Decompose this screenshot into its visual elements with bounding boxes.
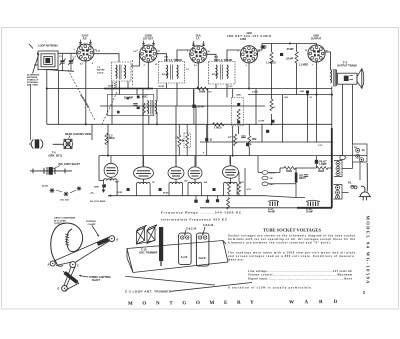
battery plug bracket right — [353, 144, 368, 162]
resistor R plate V5 — [296, 47, 298, 49]
pointer clamp bar — [97, 238, 109, 246]
wires power — [258, 156, 332, 198]
svg-text:COILS: COILS — [97, 72, 104, 74]
dial drum dark bar — [159, 227, 163, 261]
T-4 2nd IF transformer — [209, 62, 236, 85]
tube V2 1st det — [140, 45, 157, 62]
svg-text:The readings were taken with a: The readings were taken with a 1000 ohm-… — [228, 250, 356, 254]
svg-text:AC-DC: AC-DC — [270, 172, 277, 175]
wire V2 left — [131, 54, 140, 66]
tube V1 12A7 — [77, 44, 94, 61]
T-3 1st IF transformer — [159, 62, 185, 84]
cap near rect — [304, 175, 308, 177]
chassis slab — [127, 241, 228, 273]
svg-text:200M: 200M — [199, 90, 205, 93]
detector load dashed box — [232, 97, 244, 126]
svg-text:OUTPUT TRANS: OUTPUT TRANS — [337, 65, 357, 68]
svg-text:CLAMP: CLAMP — [88, 223, 96, 226]
svg-text:20MF: 20MF — [94, 187, 100, 189]
vertical x177 T3 — [176, 83, 178, 106]
svg-text:Frequency Range..........540-1: Frequency Range..........540-1600 KC — [161, 211, 242, 215]
bus y=88.5 — [47, 88, 332, 90]
speaker plug P2 — [29, 140, 43, 149]
pulley B — [109, 236, 115, 242]
svg-text:REAR CHASSIS VIEW: REAR CHASSIS VIEW — [65, 133, 92, 136]
svg-text:B+: B+ — [362, 149, 366, 152]
svg-text:I.F.: I.F. — [196, 37, 200, 40]
svg-text:MODEL 94 WG-1059A: MODEL 94 WG-1059A — [365, 216, 370, 285]
bus y=124.3 — [47, 123, 332, 125]
vertical x282.5 — [282, 95, 284, 142]
svg-text:(SPK. SKT.): (SPK. SKT.) — [49, 154, 63, 157]
vertical x58.5 loop down — [58, 71, 60, 124]
heater bottom wire — [108, 195, 265, 197]
tube V4 2nd det avc 1st audio — [240, 46, 257, 63]
svg-text:455 KC: 455 KC — [212, 73, 219, 76]
svg-text:POINTER: POINTER — [86, 221, 96, 223]
chassis plug circles left — [334, 161, 342, 177]
svg-text:A: A — [48, 264, 50, 267]
vertical V2 down — [147, 63, 149, 89]
cord to pulleys — [54, 237, 110, 291]
svg-text:Intermediate Frequency 455 KC: Intermediate Frequency 455 KC — [161, 217, 228, 221]
electrolytic C-17 — [270, 202, 278, 207]
svg-text:B: B — [117, 239, 119, 242]
svg-text:Signal input..................: Signal input............................… — [248, 276, 353, 280]
svg-text:A variation of ±10% is usually: A variation of ±10% is usually permissib… — [228, 285, 312, 289]
svg-text:TUBE SOCKET VOLTAGES: TUBE SOCKET VOLTAGES — [263, 227, 321, 232]
alignment mark 2 — [64, 192, 69, 197]
dial cord loop — [51, 223, 83, 266]
speaker SP1 — [338, 73, 358, 84]
svg-text:VOL CONT SHAFT: VOL CONT SHAFT — [58, 163, 80, 166]
heater drop wires — [104, 177, 238, 195]
alternate antenna symbol note — [27, 74, 40, 87]
plug arrow symbol — [340, 156, 346, 160]
gang condenser dashed link — [68, 60, 133, 124]
svg-text:A+: A+ — [354, 146, 358, 149]
vertical x216 T4 — [215, 84, 217, 89]
vertical x307.5 — [307, 95, 309, 142]
svg-text:40 MF: 40 MF — [268, 210, 276, 213]
svg-text:filaments are between the sock: filaments are between the socket termina… — [228, 241, 331, 245]
svg-text:ALIGN: ALIGN — [42, 185, 49, 188]
vertical x176 heater — [175, 106, 177, 166]
heater resistor bumps — [104, 179, 118, 181]
svg-text:OSC: OSC — [142, 96, 148, 99]
chassis bottom arrow line — [125, 276, 215, 285]
stub to resistor R12 — [271, 44, 273, 53]
cap C-12 — [205, 138, 208, 141]
svg-text:4.7Ω: 4.7Ω — [247, 188, 252, 191]
pulley D — [62, 285, 68, 291]
pointer clamp label — [86, 221, 96, 226]
switch contacts AC-DC — [262, 171, 268, 175]
pilot light small — [351, 185, 354, 188]
vertical V5 down — [316, 62, 318, 142]
caps audio — [280, 53, 283, 56]
heater caps — [127, 188, 130, 191]
cap C-19 under E1 — [102, 184, 106, 187]
cap .05MF — [192, 105, 195, 108]
svg-text:OSC 1620: OSC 1620 — [60, 200, 69, 202]
arrow to loop — [33, 54, 40, 74]
svg-text:.05 MF: .05 MF — [197, 106, 205, 109]
svg-text:2 MEG: 2 MEG — [252, 91, 259, 93]
svg-text:WARD: WARD — [289, 300, 348, 306]
svg-text:4.7: 4.7 — [228, 136, 232, 139]
svg-text:ANT/RF: ANT/RF — [97, 69, 105, 72]
svg-text:20 MF: 20 MF — [306, 210, 314, 213]
lower plug circles — [334, 185, 343, 200]
alignment mark 1 — [49, 188, 54, 193]
selenium rectifier — [295, 173, 298, 183]
svg-text:OSC. TRIMMER: OSC. TRIMMER — [139, 252, 158, 255]
svg-text:.05 MF: .05 MF — [286, 48, 294, 51]
svg-text:1st IF: 1st IF — [181, 256, 188, 259]
vertical x232.7 detector box — [232, 89, 234, 98]
svg-text:BATT.: BATT. — [270, 183, 276, 186]
svg-text:P.L.: P.L. — [348, 182, 353, 185]
svg-text:ALL VOLT. READ: ALL VOLT. READ — [90, 200, 106, 203]
svg-text:C-8,C-13: C-8,C-13 — [203, 224, 214, 227]
svg-text:2ND I.F. TRANS: 2ND I.F. TRANS — [214, 59, 233, 62]
B+ bold vertical — [331, 128, 333, 208]
svg-text:Volume control................: Volume control..........................… — [248, 273, 353, 277]
svg-text:GANG CONDENSER: GANG CONDENSER — [54, 217, 76, 220]
resistor 10M — [248, 136, 251, 148]
svg-text:.05 MF: .05 MF — [158, 86, 165, 88]
resistor grid V5 — [295, 52, 298, 64]
svg-text:ANT. USED: ANT. USED — [27, 84, 38, 87]
vertical x271.5 — [271, 63, 273, 99]
speaker socket S1 — [53, 143, 64, 145]
heater labels — [115, 181, 244, 195]
resistor 360 ohm — [284, 167, 296, 170]
bus y=94.6 — [248, 94, 332, 96]
vertical x112 T-2 down — [111, 81, 113, 124]
wire T-3 to V3 — [177, 50, 190, 62]
bottom bus y=207.8 — [200, 207, 297, 209]
socket E3 — [168, 167, 184, 179]
vertical left corner — [46, 89, 48, 125]
svg-text:R.F.: R.F. — [83, 37, 88, 40]
resistor 200M between IFs — [197, 87, 209, 90]
osc coil T-7 — [148, 101, 149, 115]
IF trimmer card 1 — [179, 233, 192, 265]
svg-text:.01 MF: .01 MF — [258, 121, 265, 123]
vertical V3 down — [197, 63, 199, 89]
resistor heater right 1 — [228, 182, 231, 194]
svg-text:455 KC: 455 KC — [162, 73, 169, 76]
wire V4 to V5 top — [258, 44, 317, 51]
svg-text:IN CLOSED: IN CLOSED — [54, 220, 66, 222]
pulley A — [50, 261, 55, 266]
socket E4 — [188, 167, 202, 179]
vertical x256 — [255, 89, 257, 125]
AC plug P-1 — [359, 163, 371, 200]
tuning shaft — [62, 270, 80, 285]
vertical x85.8 V1 cathode — [85, 61, 87, 124]
vertical x128 — [127, 81, 129, 89]
resistor heater right 2 — [238, 182, 241, 194]
vertical x143 heater — [142, 89, 144, 167]
cap — [241, 136, 245, 138]
vertical x249.3 — [248, 124, 250, 135]
vertical x230 heater — [229, 156, 231, 165]
volume shaft assembly — [30, 167, 72, 175]
gang condenser label — [54, 217, 76, 226]
svg-text:40 MF: 40 MF — [163, 192, 169, 195]
vertical x196 heater — [195, 106, 197, 166]
svg-text:250M: 250M — [108, 86, 113, 88]
B- down arrow — [102, 190, 106, 193]
electrolytic C-18 — [308, 202, 318, 207]
resistor 2.2 meg — [105, 133, 108, 145]
svg-text:C-9,C-14: C-9,C-14 — [186, 228, 197, 231]
svg-text:C: C — [77, 265, 79, 268]
svg-text:OUTPUT: OUTPUT — [311, 37, 322, 40]
svg-text:12B6: 12B6 — [240, 38, 247, 41]
volume control R-8 — [184, 133, 191, 148]
svg-text:RECT.: RECT. — [299, 177, 307, 180]
svg-text:390Ω: 390Ω — [318, 170, 324, 173]
bus y=106 — [100, 105, 265, 107]
alignment mark 3 — [77, 186, 81, 190]
socket E1 — [104, 163, 118, 177]
vertical x119.5 — [119, 81, 121, 95]
bus y=142 — [200, 141, 332, 143]
wavy mark — [91, 192, 94, 195]
T-2 ant coils — [112, 62, 132, 81]
svg-text:SHAFT: SHAFT — [92, 279, 101, 282]
svg-text:30Ω: 30Ω — [204, 182, 208, 184]
svg-text:30Ω: 30Ω — [184, 181, 188, 183]
junction dots — [46, 42, 333, 156]
vertical V4 down — [248, 63, 250, 89]
cord spring hatching — [65, 234, 70, 245]
wire V1 to T-2 — [94, 54, 119, 62]
vertical x207.7 — [207, 89, 209, 143]
socket E5 — [223, 166, 239, 178]
resistor under wire — [227, 198, 230, 210]
resistor plate V4 — [270, 52, 273, 64]
bold segment bus — [104, 88, 153, 90]
svg-text:12 MF: 12 MF — [117, 192, 123, 194]
vertical x157 — [156, 89, 158, 102]
vertical x262 — [261, 124, 263, 142]
trimmer C-1 — [60, 54, 66, 72]
resistor 1 MEG on bus — [213, 123, 225, 126]
pulley C — [70, 262, 76, 268]
svg-text:ment are:: ment are: — [228, 257, 244, 261]
IF trimmer card 2 — [196, 233, 209, 266]
resistor under T-2 — [114, 82, 117, 89]
svg-text:50M: 50M — [300, 91, 304, 93]
pilot lamp block — [315, 160, 318, 164]
loop antenna L1 — [34, 51, 77, 89]
wire V2 to T-3 — [157, 54, 167, 62]
svg-text:Socket voltages are shown on t: Socket voltages are shown on the schemat… — [228, 234, 355, 238]
cap in osc box — [133, 104, 137, 106]
osc section box — [107, 95, 154, 116]
svg-text:C-2 LOOP ANT. TRIMMER: C-2 LOOP ANT. TRIMMER — [125, 290, 172, 294]
tube V5 output — [308, 45, 325, 62]
leader lines — [56, 190, 62, 192]
resistor 390 ohm — [316, 167, 328, 170]
wire T-4 to V4 — [227, 50, 241, 62]
wires right — [342, 162, 360, 193]
gang condenser 3d — [137, 225, 158, 244]
svg-text:1.1 MEG: 1.1 MEG — [299, 64, 309, 67]
vertical x193.5 — [193, 89, 195, 107]
svg-text:D: D — [58, 288, 60, 291]
svg-text:and screen voltages read on a: and screen voltages read on a 300 volt s… — [228, 254, 355, 258]
svg-text:2nd IF: 2nd IF — [199, 257, 207, 260]
svg-text:SW: SW — [270, 178, 273, 180]
resistor in osc box — [142, 103, 145, 115]
vertical x296.5 — [296, 63, 298, 95]
cap C-5 25MMF — [137, 96, 140, 99]
bus y=155.6 — [99, 155, 367, 157]
svg-text:terminals with set not operati: terminals with set not operating on AC. … — [228, 237, 356, 241]
svg-text:LOOP ANTENNA: LOOP ANTENNA — [38, 45, 58, 48]
svg-text:1 MEG: 1 MEG — [214, 126, 222, 129]
vertical x92 — [91, 124, 93, 140]
bypass caps under heater wire — [196, 196, 218, 200]
svg-text:MEG: MEG — [109, 137, 115, 140]
svg-text:2ND DET-AVC-1ST AUDIO: 2ND DET-AVC-1ST AUDIO — [227, 35, 271, 38]
trimmer C-3 — [68, 54, 74, 72]
wire V5 plate to T5 — [325, 52, 330, 70]
svg-text:1ST DET: 1ST DET — [143, 37, 154, 40]
svg-text:360Ω: 360Ω — [286, 170, 292, 173]
vertical x166.5 T3 — [166, 83, 168, 89]
svg-text:LAMP: LAMP — [319, 163, 326, 166]
svg-text:.01: .01 — [209, 139, 213, 142]
resistor x271 mid — [270, 99, 273, 111]
svg-text:10M: 10M — [252, 138, 257, 141]
wire V3 to T-4 — [207, 54, 217, 61]
socket E2 — [134, 167, 154, 179]
corner into heater — [99, 156, 104, 181]
svg-text:Line voltage..................: Line voltage............................… — [248, 269, 352, 273]
vertical x238.6 — [238, 126, 240, 134]
svg-text:48Ω: 48Ω — [115, 181, 119, 184]
svg-text:1.5 MEG: 1.5 MEG — [266, 62, 276, 65]
vertical x227 T4 — [226, 84, 228, 97]
socket stubs — [111, 156, 231, 167]
resistor 4.7meg — [234, 134, 237, 146]
svg-text:.02 MF: .02 MF — [286, 58, 294, 61]
tube V3 IF — [190, 46, 207, 63]
antenna lead wire — [30, 84, 32, 140]
